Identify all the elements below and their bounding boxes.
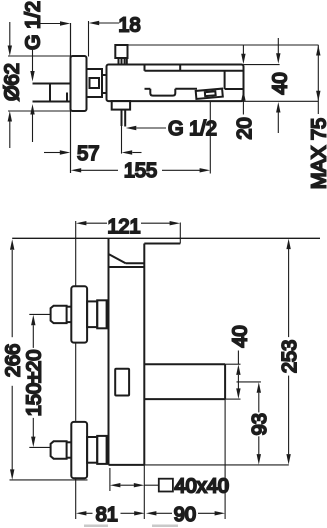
svg-text:81: 81	[96, 504, 118, 526]
121 right extension / step	[179, 223, 181, 244]
svg-text:18: 18	[118, 15, 140, 37]
G1/2 nipple behind wall	[33, 84, 71, 102]
body column right edge	[143, 244, 145, 465]
svg-text:40: 40	[270, 72, 292, 94]
wall line	[70, 23, 72, 173]
dimension 93	[258, 393, 260, 455]
shower hose connector	[112, 101, 130, 110]
hose left line extension (57 ext)	[121, 126, 123, 154]
spout right edge extension	[224, 399, 226, 519]
svg-text:Ø62: Ø62	[2, 63, 24, 101]
svg-text:40: 40	[230, 325, 252, 347]
diverter knob	[196, 89, 223, 99]
dimension G 1/2 (leader to hose)	[136, 127, 166, 129]
dimension G 1/2 (top left, to nipple)	[32, 50, 34, 142]
dimension 155	[81, 102, 210, 174]
bottom face of column	[109, 464, 145, 466]
dimension 57	[44, 152, 142, 154]
dimension MAX 75	[317, 45, 319, 114]
lever handle	[109, 254, 145, 267]
dimension 121	[86, 222, 170, 224]
window detail on column	[115, 369, 129, 396]
body top edge	[144, 243, 180, 245]
40x40 square symbol	[159, 479, 173, 492]
dimension 253	[288, 249, 290, 454]
escutcheon (wall plate, edge view)	[71, 56, 87, 111]
40x40 width double arrow	[110, 468, 158, 491]
dimension D62	[8, 22, 71, 148]
dimension 81	[86, 512, 134, 514]
column right edge extension	[143, 465, 145, 519]
dimension 150+-20	[29, 314, 50, 447]
svg-text:40x40: 40x40	[175, 476, 230, 498]
cartridge handle	[115, 45, 127, 65]
svg-text:253: 253	[279, 340, 301, 373]
svg-text:57: 57	[77, 143, 99, 165]
wall union bottom	[51, 422, 109, 478]
underside recess	[150, 89, 175, 96]
body bottom reference line extension	[244, 100, 319, 102]
body (side view)	[107, 65, 244, 102]
neck	[102, 75, 107, 93]
svg-text:90: 90	[174, 504, 196, 526]
body seam line	[145, 65, 244, 71]
svg-text:121: 121	[107, 216, 140, 238]
svg-text:93: 93	[249, 413, 271, 435]
watermark fragment right	[152, 525, 178, 528]
wall union top	[51, 286, 109, 342]
svg-text:MAX 75: MAX 75	[309, 118, 327, 189]
connector block	[87, 69, 103, 97]
handle top extension line	[128, 44, 319, 46]
svg-text:155: 155	[124, 160, 157, 182]
dimension 18	[40, 21, 119, 57]
svg-text:150±20: 150±20	[23, 350, 45, 417]
dimension 266	[10, 250, 88, 480]
dimension 20	[242, 45, 244, 115]
dimension 40 (bottom figure)	[225, 351, 261, 400]
bottom reference extension line	[144, 464, 288, 466]
svg-text:266: 266	[2, 344, 24, 377]
watermark fragment left	[84, 525, 108, 528]
body top extension line	[244, 64, 280, 66]
spout underside seam	[145, 71, 244, 89]
svg-text:20: 20	[234, 117, 256, 139]
left wall line segments (121/81 extension)	[75, 221, 77, 519]
spout block	[144, 364, 225, 399]
hose lines	[122, 110, 126, 127]
dimension 90	[156, 512, 215, 514]
dimension 40 (top figure)	[277, 38, 279, 133]
body column left edge	[108, 238, 110, 465]
svg-text:G 1/2: G 1/2	[23, 1, 45, 50]
svg-text:G 1/2: G 1/2	[168, 118, 217, 140]
top reference line	[12, 237, 320, 239]
